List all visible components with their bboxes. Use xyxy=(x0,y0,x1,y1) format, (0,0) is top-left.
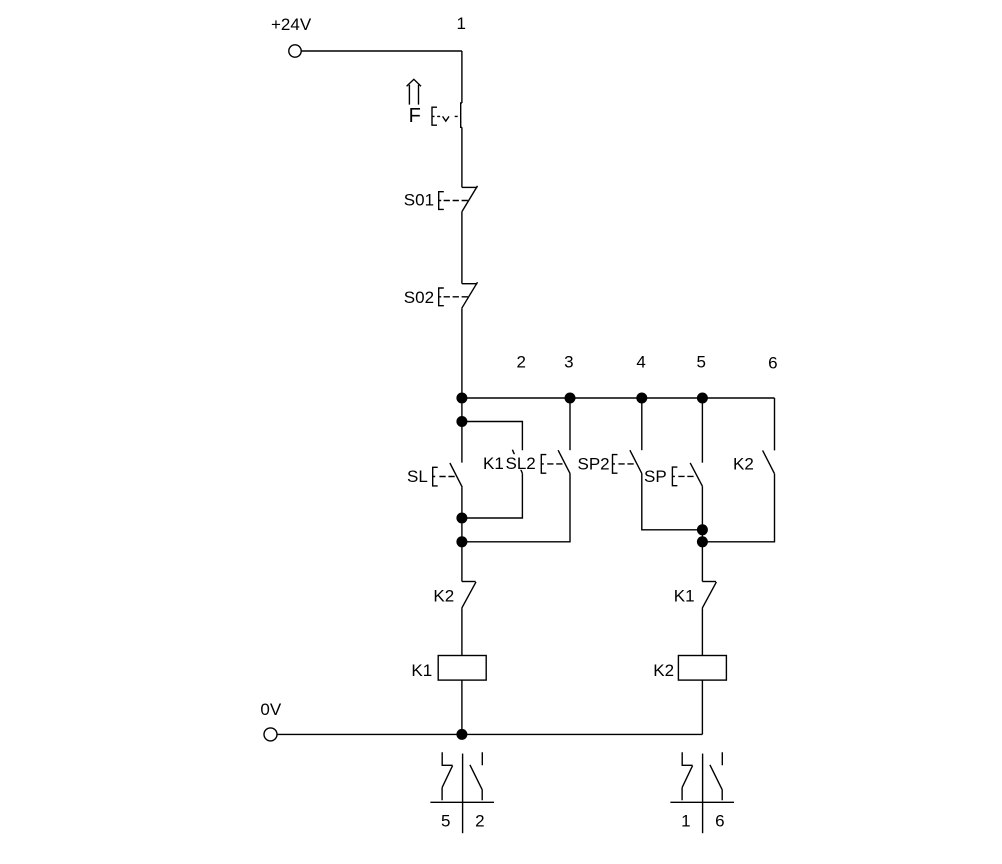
svg-text:1: 1 xyxy=(681,811,690,830)
switch S02 contact (NC) xyxy=(462,283,477,285)
wire SP bottom through nodes xyxy=(701,486,703,581)
svg-text:K2: K2 xyxy=(433,587,454,606)
mirror table K2 centre line xyxy=(702,754,704,834)
svg-text:SP2: SP2 xyxy=(578,454,610,473)
mirror contact K1 NO (pin 2) xyxy=(470,752,482,800)
switch SP2 contact (NO) xyxy=(630,450,642,473)
wire down from node 1 xyxy=(461,51,463,103)
svg-text:SL: SL xyxy=(407,467,428,486)
switch SL2 branch wire top xyxy=(569,398,571,450)
wire SP2 bottom to right branch xyxy=(642,473,703,529)
svg-text:2: 2 xyxy=(516,353,525,372)
svg-text:K1: K1 xyxy=(411,661,432,680)
switch S02 actuator bracket xyxy=(439,288,444,306)
wire F to S01 xyxy=(461,127,463,187)
contact K2 blade (NO) xyxy=(763,450,775,473)
wire to coil K2 xyxy=(701,608,703,655)
switch SP actuator dashed link xyxy=(678,475,694,477)
terminal 0V xyxy=(264,728,277,741)
junction dot 0V rail xyxy=(456,729,467,740)
junction dot right x702 y542 xyxy=(697,536,708,547)
junction dot K1-loop top xyxy=(456,416,467,427)
switch SL2 actuator bracket xyxy=(541,455,546,474)
svg-text:F: F xyxy=(409,105,421,127)
coil K2 xyxy=(678,656,726,681)
svg-text:3: 3 xyxy=(564,353,573,372)
switch F blade xyxy=(461,103,462,127)
svg-text:+24V: +24V xyxy=(271,15,312,34)
wire K2 bottom to right branch xyxy=(702,474,774,542)
switch SL actuator bracket xyxy=(433,467,438,486)
svg-text:SP: SP xyxy=(644,467,667,486)
switch S01 actuator dashed link xyxy=(444,200,469,202)
wire +24V rail xyxy=(301,50,462,52)
switch SP branch wire top xyxy=(701,398,703,463)
switch S02 actuator dashed link xyxy=(444,296,469,298)
junction dot right x702 y530 xyxy=(697,524,708,535)
wire S01 to S02 xyxy=(461,212,463,284)
wire coil K2 to 0V rail xyxy=(701,680,703,734)
svg-text:2: 2 xyxy=(475,811,484,830)
switch SP actuator bracket xyxy=(672,467,677,486)
svg-text:4: 4 xyxy=(636,353,645,372)
wire 0V rail xyxy=(277,733,702,735)
svg-text:1: 1 xyxy=(456,14,465,33)
switch SP2 branch wire top xyxy=(641,398,643,450)
svg-text:0V: 0V xyxy=(260,700,281,719)
switch F actuator bracket xyxy=(432,107,437,125)
junction dot bus x642 xyxy=(636,393,647,404)
switch S01 contact (NC) xyxy=(462,186,477,188)
wire S02 to bus node xyxy=(461,308,463,462)
switch SP contact (NO) xyxy=(690,463,702,486)
junction dot left x462 y542 xyxy=(456,536,467,547)
mirror table K1 centre line xyxy=(462,754,464,834)
svg-text:6: 6 xyxy=(715,811,724,830)
switch SP2 actuator dashed link xyxy=(618,463,634,465)
wire bus xyxy=(462,397,775,399)
svg-text:K2: K2 xyxy=(733,454,754,473)
svg-text:5: 5 xyxy=(441,811,450,830)
switch SL actuator dashed link xyxy=(439,476,455,478)
switch SL contact (NO) xyxy=(450,463,462,487)
svg-text:6: 6 xyxy=(768,354,777,373)
contact K1 right NC xyxy=(702,581,716,583)
svg-text:K1: K1 xyxy=(483,454,504,473)
switch F actuator dashed link with V xyxy=(437,115,458,117)
label background K1 SL2 xyxy=(481,454,538,470)
svg-text:5: 5 xyxy=(696,353,705,372)
switch SP2 actuator bracket xyxy=(613,455,618,474)
wire to coil K1 xyxy=(461,608,463,655)
switch SL2 actuator dashed link xyxy=(547,463,563,465)
terminal +24V xyxy=(289,45,301,57)
wire coil K1 to 0V rail xyxy=(461,680,463,734)
svg-text:S02: S02 xyxy=(404,288,434,307)
mirror table K2 bar xyxy=(670,801,734,803)
mirror contact K2 NC (pin 1) xyxy=(682,752,693,800)
contact K2 left NC xyxy=(462,581,476,583)
wire SL2 bottom to left branch xyxy=(462,473,570,541)
svg-text:K2: K2 xyxy=(653,661,674,680)
contact K1 loop wires xyxy=(462,422,523,519)
junction dot left x462 y518 xyxy=(456,513,467,524)
junction dot bus x702 xyxy=(697,393,708,404)
wire SL to lower nodes xyxy=(461,487,463,581)
svg-text:K1: K1 xyxy=(674,587,695,606)
svg-text:S01: S01 xyxy=(404,190,434,209)
switch SL2 contact (NO) xyxy=(558,450,570,473)
mirror table K1 bar xyxy=(430,801,494,803)
junction dot bus x462 xyxy=(456,393,467,404)
junction dot bus x570 xyxy=(565,393,576,404)
svg-text:SL2: SL2 xyxy=(506,454,536,473)
mirror contact K1 NC (pin 5) xyxy=(442,752,453,800)
contact K2 branch wire top xyxy=(774,398,776,450)
mirror contact K2 NO (pin 6) xyxy=(710,752,722,800)
contact K1 blade (NO) xyxy=(512,450,522,474)
coil K1 xyxy=(438,656,486,681)
switch S01 actuator bracket xyxy=(439,192,444,210)
switch F arrow xyxy=(407,79,421,104)
